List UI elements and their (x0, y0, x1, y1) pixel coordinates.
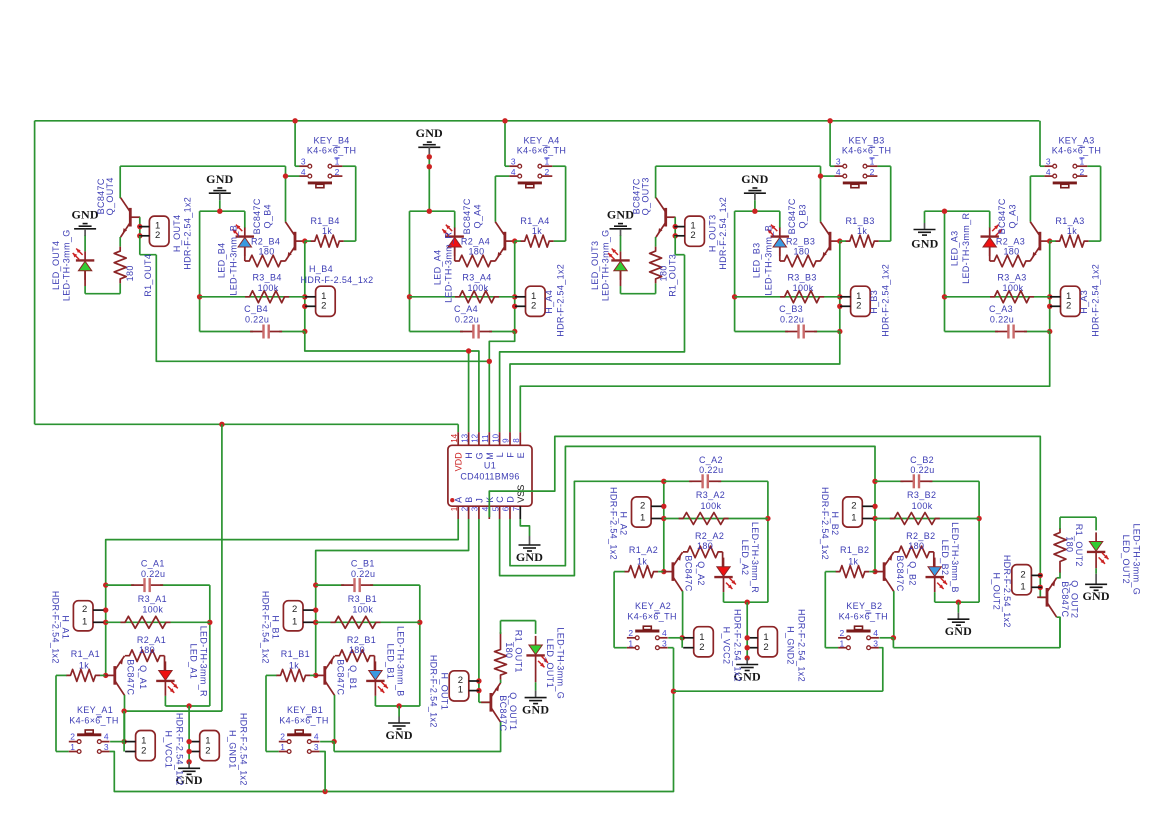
svg-text:1: 1 (851, 513, 856, 524)
svg-text:H_OUT1: H_OUT1 (439, 672, 449, 710)
svg-text:LED_A3: LED_A3 (950, 230, 960, 266)
svg-text:R1_B4: R1_B4 (310, 216, 339, 226)
svg-text:J: J (474, 498, 484, 503)
svg-text:180: 180 (794, 247, 810, 257)
svg-text:GND: GND (516, 550, 543, 564)
svg-text:1k: 1k (857, 226, 867, 236)
svg-text:2: 2 (82, 604, 87, 615)
svg-text:BC847C: BC847C (787, 198, 797, 234)
svg-text:R2_B1: R2_B1 (347, 635, 376, 645)
svg-text:R1_A1: R1_A1 (71, 649, 100, 659)
svg-text:0.22u: 0.22u (990, 314, 1014, 324)
svg-text:H_B4: H_B4 (309, 264, 333, 274)
svg-text:2: 2 (335, 167, 340, 177)
svg-text:6: 6 (502, 506, 511, 511)
svg-text:180: 180 (468, 247, 484, 257)
svg-text:KEY_A3: KEY_A3 (1058, 136, 1094, 146)
svg-text:KEY_A1: KEY_A1 (77, 705, 113, 715)
svg-text:LED-TH-3mm_G: LED-TH-3mm_G (1131, 523, 1141, 595)
svg-text:Q_A3: Q_A3 (1007, 204, 1017, 228)
svg-text:1: 1 (640, 513, 645, 524)
svg-text:GND: GND (416, 126, 443, 140)
svg-text:1: 1 (70, 742, 75, 752)
svg-text:1: 1 (280, 742, 285, 752)
svg-text:3: 3 (471, 506, 480, 511)
svg-text:100k: 100k (912, 501, 933, 511)
svg-text:H_B2: H_B2 (830, 512, 840, 536)
svg-text:180: 180 (697, 541, 713, 551)
svg-text:H_OUT3: H_OUT3 (707, 214, 717, 252)
svg-text:E: E (516, 452, 526, 458)
svg-text:R1_A2: R1_A2 (629, 545, 658, 555)
svg-text:2: 2 (870, 167, 875, 177)
svg-text:1k: 1k (1067, 226, 1077, 236)
svg-text:13: 13 (460, 433, 469, 442)
svg-text:180: 180 (139, 645, 155, 655)
svg-text:C_B4: C_B4 (244, 304, 268, 314)
svg-text:R2_A3: R2_A3 (996, 237, 1025, 247)
svg-text:LED-TH-3mm_R: LED-TH-3mm_R (444, 232, 454, 303)
svg-text:KEY_B1: KEY_B1 (287, 705, 323, 715)
svg-text:GND: GND (385, 728, 412, 742)
svg-text:100k: 100k (352, 605, 373, 615)
svg-text:GND: GND (1082, 589, 1109, 603)
svg-text:2: 2 (155, 230, 160, 241)
svg-text:GND: GND (741, 172, 768, 186)
svg-text:LED_OUT3: LED_OUT3 (590, 241, 600, 290)
svg-text:1k: 1k (289, 660, 299, 670)
svg-text:BC847C: BC847C (895, 555, 905, 591)
svg-text:LED_OUT1: LED_OUT1 (545, 639, 555, 688)
svg-text:C_B1: C_B1 (351, 559, 375, 569)
svg-text:HDR-F-2.54_1x2: HDR-F-2.54_1x2 (881, 264, 891, 337)
svg-text:2: 2 (628, 628, 633, 638)
svg-text:H_A1: H_A1 (61, 615, 71, 639)
svg-text:1: 1 (292, 616, 297, 627)
svg-text:Q_OUT1: Q_OUT1 (508, 692, 518, 730)
svg-text:K4-6×6_TH: K4-6×6_TH (627, 612, 676, 622)
svg-text:2: 2 (699, 642, 704, 653)
svg-text:R3_B2: R3_B2 (907, 490, 936, 500)
svg-text:H_B1: H_B1 (271, 615, 281, 639)
svg-text:2: 2 (640, 500, 645, 511)
svg-text:2: 2 (856, 300, 861, 311)
svg-text:100k: 100k (468, 283, 489, 293)
svg-text:K4-6×6_TH: K4-6×6_TH (307, 146, 356, 156)
svg-text:CD4011BM96: CD4011BM96 (460, 471, 519, 481)
svg-text:LED-TH-3mm_B: LED-TH-3mm_B (396, 626, 406, 697)
svg-text:2: 2 (1080, 167, 1085, 177)
svg-text:1: 1 (1020, 581, 1025, 592)
svg-text:0.22u: 0.22u (245, 314, 269, 324)
svg-text:4: 4 (314, 732, 319, 742)
svg-text:LED_A2: LED_A2 (740, 540, 750, 576)
svg-text:R2_B2: R2_B2 (906, 531, 935, 541)
svg-text:H_GND1: H_GND1 (228, 730, 238, 769)
svg-text:R1_B2: R1_B2 (840, 545, 869, 555)
svg-text:LED-TH-3mm_B: LED-TH-3mm_B (763, 225, 773, 296)
svg-text:2: 2 (141, 746, 146, 757)
svg-text:180: 180 (908, 541, 924, 551)
svg-text:R3_B3: R3_B3 (787, 273, 816, 283)
svg-text:Q_B4: Q_B4 (262, 204, 272, 228)
svg-text:2: 2 (205, 746, 210, 757)
svg-text:BC847C: BC847C (498, 695, 508, 731)
svg-text:U1: U1 (484, 460, 496, 470)
svg-text:4: 4 (511, 167, 516, 177)
svg-text:H_B3: H_B3 (869, 290, 879, 314)
svg-text:C_B2: C_B2 (910, 455, 934, 465)
svg-text:180: 180 (349, 645, 365, 655)
svg-text:KEY_B2: KEY_B2 (846, 601, 882, 611)
svg-text:BC847C: BC847C (252, 198, 262, 234)
svg-text:Q_A1: Q_A1 (138, 665, 148, 689)
svg-text:LED_B2: LED_B2 (940, 540, 950, 576)
svg-text:F: F (506, 452, 516, 458)
svg-text:5: 5 (491, 506, 500, 511)
svg-text:2: 2 (292, 604, 297, 615)
svg-text:H_A3: H_A3 (1079, 290, 1089, 314)
svg-text:2: 2 (460, 506, 469, 511)
svg-text:R3_B4: R3_B4 (252, 273, 281, 283)
svg-text:K4-6×6_TH: K4-6×6_TH (517, 146, 566, 156)
svg-text:0.22u: 0.22u (699, 465, 723, 475)
svg-text:10: 10 (491, 433, 500, 442)
svg-text:4: 4 (301, 167, 306, 177)
svg-text:R1_OUT2: R1_OUT2 (1074, 524, 1084, 567)
svg-text:LED-TH-3mm_G: LED-TH-3mm_G (600, 229, 610, 301)
svg-text:R2_B3: R2_B3 (786, 237, 815, 247)
svg-text:H_OUT2: H_OUT2 (992, 572, 1002, 610)
svg-text:GND: GND (945, 624, 972, 638)
svg-text:C_A1: C_A1 (141, 559, 165, 569)
svg-text:L: L (495, 452, 505, 457)
svg-text:HDR-F-2.54_1x2: HDR-F-2.54_1x2 (239, 713, 249, 786)
svg-text:HDR-F-2.54_1x2: HDR-F-2.54_1x2 (429, 655, 439, 728)
svg-text:1: 1 (458, 685, 463, 696)
svg-text:3: 3 (836, 156, 841, 166)
svg-text:LED_B4: LED_B4 (216, 242, 226, 278)
svg-text:Q_A2: Q_A2 (696, 561, 706, 585)
svg-text:2: 2 (851, 500, 856, 511)
svg-text:BC847C: BC847C (462, 198, 472, 234)
svg-text:R3_A2: R3_A2 (696, 490, 725, 500)
svg-text:3: 3 (1046, 156, 1051, 166)
svg-text:R1_B3: R1_B3 (845, 216, 874, 226)
svg-text:LED_OUT4: LED_OUT4 (51, 241, 61, 290)
svg-text:2: 2 (70, 732, 75, 742)
svg-text:R2_A1: R2_A1 (137, 635, 166, 645)
svg-text:2: 2 (321, 300, 326, 311)
svg-text:LED-TH-3mm_G: LED-TH-3mm_G (555, 627, 565, 699)
svg-text:HDR-F-2.54_1x2: HDR-F-2.54_1x2 (1002, 555, 1012, 628)
svg-text:1: 1 (82, 616, 87, 627)
svg-text:4: 4 (836, 167, 841, 177)
svg-text:B: B (464, 497, 474, 503)
svg-text:LED-TH-3mm_G: LED-TH-3mm_G (62, 229, 72, 301)
svg-text:3: 3 (511, 156, 516, 166)
svg-text:R3_A4: R3_A4 (462, 273, 491, 283)
svg-text:BC847C: BC847C (126, 659, 136, 695)
svg-text:HDR-F-2.54_1x2: HDR-F-2.54_1x2 (609, 487, 619, 560)
svg-text:KEY_B3: KEY_B3 (849, 136, 885, 146)
svg-text:H_VCC2: H_VCC2 (722, 627, 732, 665)
svg-text:GND: GND (607, 207, 634, 221)
svg-text:4: 4 (104, 732, 109, 742)
svg-text:4: 4 (1046, 167, 1051, 177)
svg-text:C_A4: C_A4 (454, 304, 478, 314)
svg-text:1k: 1k (532, 226, 542, 236)
svg-text:LED_B3: LED_B3 (751, 242, 761, 278)
svg-text:C: C (495, 496, 505, 503)
svg-text:R1_OUT4: R1_OUT4 (143, 254, 153, 297)
svg-text:VSS: VSS (516, 485, 526, 503)
svg-text:BC847C: BC847C (684, 555, 694, 591)
svg-text:HDR-F-2.54_1x2: HDR-F-2.54_1x2 (51, 591, 61, 664)
svg-text:LED-TH-3mm_R: LED-TH-3mm_R (199, 626, 209, 697)
svg-text:GND: GND (71, 207, 98, 221)
svg-text:1: 1 (628, 638, 633, 648)
svg-text:R1_OUT1: R1_OUT1 (513, 630, 523, 673)
svg-text:Q_OUT3: Q_OUT3 (641, 177, 651, 215)
svg-text:8: 8 (512, 438, 521, 443)
svg-text:Q_B1: Q_B1 (348, 665, 358, 689)
svg-text:HDR-F-2.54_1x2: HDR-F-2.54_1x2 (820, 487, 830, 560)
svg-text:100k: 100k (700, 501, 721, 511)
svg-text:Q_B3: Q_B3 (797, 204, 807, 228)
svg-text:GND: GND (522, 702, 549, 716)
svg-text:LED-TH-3mm_B: LED-TH-3mm_B (950, 522, 960, 593)
svg-text:KEY_B4: KEY_B4 (314, 136, 350, 146)
svg-text:LED_OUT2: LED_OUT2 (1121, 535, 1131, 584)
svg-text:HDR-F-2.54_1x2: HDR-F-2.54_1x2 (556, 264, 566, 337)
svg-text:HDR-F-2.54_1x2: HDR-F-2.54_1x2 (301, 275, 374, 285)
svg-text:180: 180 (259, 247, 275, 257)
svg-text:R3_B1: R3_B1 (348, 594, 377, 604)
svg-text:100k: 100k (258, 283, 279, 293)
svg-text:LED_A4: LED_A4 (433, 249, 443, 285)
svg-text:3: 3 (104, 742, 109, 752)
svg-text:4: 4 (873, 628, 878, 638)
svg-text:0.22u: 0.22u (141, 569, 165, 579)
svg-text:7: 7 (512, 506, 521, 511)
svg-text:1: 1 (840, 638, 845, 648)
svg-text:2: 2 (763, 642, 768, 653)
svg-text:2: 2 (1066, 300, 1071, 311)
svg-text:HDR-F-2.54_1x2: HDR-F-2.54_1x2 (183, 197, 193, 270)
svg-text:LED-TH-3mm_R: LED-TH-3mm_R (750, 522, 760, 593)
svg-text:0.22u: 0.22u (910, 465, 934, 475)
svg-text:HDR-F-2.54_1x2: HDR-F-2.54_1x2 (175, 713, 185, 786)
svg-text:100k: 100k (793, 283, 814, 293)
svg-text:0.22u: 0.22u (780, 314, 804, 324)
svg-text:12: 12 (471, 433, 480, 442)
svg-text:R1_B1: R1_B1 (281, 649, 310, 659)
svg-text:GND: GND (206, 172, 233, 186)
svg-text:H_A2: H_A2 (619, 512, 629, 536)
svg-text:K4-6×6_TH: K4-6×6_TH (279, 715, 328, 725)
svg-text:1k: 1k (322, 226, 332, 236)
svg-text:180: 180 (1003, 247, 1019, 257)
svg-text:Q_A4: Q_A4 (472, 204, 482, 228)
svg-text:G: G (474, 452, 484, 459)
svg-text:3: 3 (301, 156, 306, 166)
svg-text:1: 1 (450, 506, 459, 511)
svg-text:K4-6×6_TH: K4-6×6_TH (1052, 146, 1101, 156)
svg-text:0.22u: 0.22u (455, 314, 479, 324)
svg-text:2: 2 (1020, 570, 1025, 581)
svg-text:K4-6×6_TH: K4-6×6_TH (69, 715, 118, 725)
svg-text:2: 2 (840, 628, 845, 638)
svg-text:100k: 100k (142, 605, 163, 615)
svg-text:LED_B1: LED_B1 (386, 643, 396, 679)
svg-text:H_VCC1: H_VCC1 (164, 730, 174, 768)
svg-text:Q_B2: Q_B2 (907, 561, 917, 585)
svg-text:3: 3 (314, 742, 319, 752)
svg-text:H_A4: H_A4 (544, 290, 554, 314)
svg-text:3: 3 (662, 638, 667, 648)
svg-text:2: 2 (280, 732, 285, 742)
svg-text:1k: 1k (79, 660, 89, 670)
svg-text:H_GND2: H_GND2 (786, 626, 796, 665)
svg-text:Q_OUT4: Q_OUT4 (105, 177, 115, 215)
svg-text:0.22u: 0.22u (351, 569, 375, 579)
svg-text:2: 2 (545, 167, 550, 177)
svg-text:GND: GND (911, 237, 938, 251)
svg-text:HDR-F-2.54_1x2: HDR-F-2.54_1x2 (718, 197, 728, 270)
svg-text:HDR-F-2.54_1x2: HDR-F-2.54_1x2 (261, 591, 271, 664)
svg-text:C_A2: C_A2 (699, 455, 723, 465)
svg-text:A: A (454, 497, 464, 503)
svg-text:C_A3: C_A3 (989, 304, 1013, 314)
svg-text:K4-6×6_TH: K4-6×6_TH (842, 146, 891, 156)
svg-text:BC847C: BC847C (1060, 581, 1070, 617)
svg-text:180: 180 (504, 642, 514, 658)
svg-text:R2_A4: R2_A4 (461, 237, 490, 247)
svg-text:2: 2 (690, 230, 695, 241)
svg-text:180: 180 (125, 265, 135, 281)
svg-text:D: D (506, 496, 516, 503)
svg-text:LED_A1: LED_A1 (189, 643, 199, 679)
svg-text:R1_OUT3: R1_OUT3 (668, 254, 678, 297)
svg-text:HDR-F-2.54_1x2: HDR-F-2.54_1x2 (1091, 264, 1101, 337)
svg-text:VDD: VDD (454, 452, 464, 472)
svg-text:2: 2 (531, 300, 536, 311)
svg-text:HDR-F-2.54_1x2: HDR-F-2.54_1x2 (733, 609, 743, 682)
svg-text:3: 3 (873, 638, 878, 648)
svg-text:R3_A1: R3_A1 (138, 594, 167, 604)
svg-text:KEY_A2: KEY_A2 (635, 601, 671, 611)
svg-text:H: H (464, 452, 474, 459)
svg-text:LED-TH-3mm_B: LED-TH-3mm_B (228, 225, 238, 296)
svg-text:R2_B4: R2_B4 (251, 237, 280, 247)
svg-text:R1_A3: R1_A3 (1055, 216, 1084, 226)
svg-text:BC847C: BC847C (997, 198, 1007, 234)
svg-text:11: 11 (481, 434, 490, 443)
svg-text:1k: 1k (637, 557, 647, 567)
svg-text:14: 14 (450, 433, 459, 442)
svg-text:180: 180 (1065, 536, 1075, 552)
svg-text:H_OUT4: H_OUT4 (172, 214, 182, 252)
svg-text:KEY_A4: KEY_A4 (523, 136, 559, 146)
svg-text:R1_A4: R1_A4 (520, 216, 549, 226)
svg-text:HDR-F-2.54_1x2: HDR-F-2.54_1x2 (797, 609, 807, 682)
svg-text:100k: 100k (1003, 283, 1024, 293)
svg-text:Q_OUT2: Q_OUT2 (1070, 580, 1080, 618)
svg-text:4: 4 (662, 628, 667, 638)
svg-text:R3_A3: R3_A3 (997, 273, 1026, 283)
svg-text:R2_A2: R2_A2 (695, 531, 724, 541)
svg-text:C_B3: C_B3 (779, 304, 803, 314)
svg-text:BC847C: BC847C (336, 659, 346, 695)
svg-text:K4-6×6_TH: K4-6×6_TH (839, 612, 888, 622)
svg-text:M: M (485, 452, 495, 460)
svg-text:LED-TH-3mm_R: LED-TH-3mm_R (961, 213, 971, 284)
svg-text:9: 9 (502, 438, 511, 443)
svg-text:1k: 1k (848, 557, 858, 567)
